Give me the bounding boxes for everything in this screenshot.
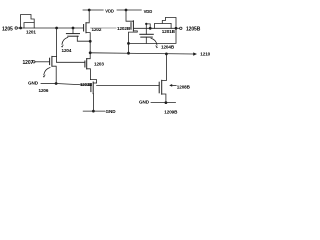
wire output long (90, 53, 193, 54)
capacitor 1204B top plate (140, 33, 154, 35)
capacitor 1204 top plate (66, 33, 79, 35)
transistor 1208B source lead (162, 94, 166, 103)
svg-text:1209B: 1209B (164, 110, 178, 115)
junction dot 1204B top (145, 23, 147, 25)
capacitor 1204B bottom lead (145, 37, 147, 43)
transistor 1201B gate hump (155, 23, 172, 28)
capacitor 1204 junction dot (72, 27, 75, 30)
terminal circle 1205 (15, 27, 17, 29)
junction dot 1204 wire at column (89, 40, 92, 43)
GND label left (28, 81, 39, 86)
transistor 1208B channel bar (161, 80, 163, 94)
transistor 1206 channel bar (51, 56, 53, 66)
label 1201 (26, 29, 36, 34)
svg-text:1205: 1205 (2, 27, 13, 33)
svg-text:GND: GND (139, 99, 150, 104)
svg-text:VDD: VDD (105, 8, 114, 13)
junction dot bottom GND (92, 110, 95, 113)
svg-text:1201B: 1201B (162, 29, 176, 34)
bulk arrow of 1206 (44, 68, 50, 75)
junction dot GND left (55, 82, 58, 85)
svg-text:1204B: 1204B (161, 45, 175, 50)
transistor 1201B gate staircase (162, 18, 176, 29)
transistor 1202 drain lead (86, 10, 89, 23)
junction dot 1201B left (149, 27, 152, 30)
svg-text:1201: 1201 (26, 29, 36, 34)
label 1210 (200, 51, 210, 56)
wire 1204B top tap to 1201B wire (146, 24, 150, 28)
transistor 1203 source lead (87, 69, 97, 83)
label 1203 (94, 61, 104, 66)
junction dot at 1201 (19, 27, 22, 30)
output arrowhead (193, 52, 197, 55)
label 1206 (39, 88, 49, 93)
svg-text:GND: GND (28, 81, 39, 86)
transistor 1202 source lead (86, 33, 90, 53)
transistor 1202B source lead (129, 31, 138, 53)
wire gate 1208B long (97, 85, 160, 87)
bulk arrow of 1204 (62, 37, 68, 44)
transistor 1206 gate bar (49, 58, 51, 64)
transistor 1202B gate bar (130, 23, 132, 30)
VDD label 2 (144, 9, 153, 14)
GND label right (139, 99, 150, 104)
capacitor 1204 bottom plate (68, 35, 78, 37)
node 1205 input label (2, 27, 13, 33)
VDD label 1 (105, 8, 114, 13)
wire GND left (41, 83, 56, 85)
label 1202 (91, 27, 102, 32)
junction dot 1204B wire (127, 42, 130, 45)
label 1204B (161, 45, 175, 50)
wire bottom GND (83, 110, 104, 112)
wire input 1205 to gate of 1202 (17, 27, 83, 29)
transistor 1203B gate bar (90, 84, 92, 92)
wire 1207 to gate of 1206 (35, 61, 50, 63)
capacitor 1204 top lead (72, 28, 74, 34)
wire gate line to 1202B (91, 27, 132, 29)
transistor 1203 channel bar (86, 59, 88, 69)
transistor 1208B gate bar (158, 82, 160, 93)
junction dot node to 1206 drain (55, 27, 58, 30)
junction dot rail at 1202B (125, 9, 128, 12)
svg-text:1210: 1210 (200, 51, 210, 56)
transistor 1202B drain lead (126, 10, 133, 21)
label 1204 (62, 48, 72, 53)
label 1209B (164, 110, 178, 115)
junction dot 1205B (175, 27, 178, 30)
capacitor 1204B top lead (145, 24, 147, 34)
wire node down to 1206 drain and 1203 gate tap (56, 28, 58, 62)
transistor 1202 channel bar (85, 23, 87, 33)
svg-text:1206: 1206 (39, 88, 49, 93)
capacitor 1204 bottom lead (77, 36, 90, 41)
svg-text:1203B: 1203B (80, 82, 92, 87)
transistor 1203B channel bar (92, 82, 94, 94)
transistor Q 1201 gate hump (24, 23, 34, 28)
label 1203B (80, 82, 92, 87)
transistor Q 1201 gate staircase (21, 15, 35, 29)
terminal label 1207 (23, 60, 34, 66)
svg-text:1203: 1203 (94, 61, 104, 66)
transistor 1203B drain corner (93, 82, 96, 84)
junction dot output node left (89, 51, 92, 54)
junction dot GND right (165, 101, 168, 104)
svg-text:VDD: VDD (144, 9, 153, 14)
junction dot output at 1208B (165, 53, 168, 56)
transistor 1206 source stub (52, 66, 56, 83)
wire GND right (151, 102, 176, 104)
wire under 1201B (133, 27, 176, 29)
transistor 1202 gate bar (83, 25, 85, 32)
wire to terminal 1205B (176, 27, 180, 29)
transistor 1203B source lead (92, 94, 94, 112)
svg-text:1205B: 1205B (186, 26, 201, 32)
transistor 1203 drain lead (87, 53, 91, 59)
bulk arrow of 1204B (151, 38, 157, 45)
transistor 1206 drain stub (52, 56, 57, 58)
svg-text:1204: 1204 (62, 48, 72, 53)
transistor 1202B channel bar (132, 21, 134, 31)
svg-text:1208B: 1208B (177, 84, 191, 89)
wire gate 1203B from GND dot (56, 84, 91, 86)
label 1201B (162, 29, 176, 34)
terminal circle 1205B (180, 27, 182, 29)
label arrow 1208B (171, 84, 177, 86)
GND label bottom middle (106, 109, 117, 114)
junction dot rail at 1202 (88, 9, 91, 12)
transistor 1203 gate bar (84, 61, 86, 67)
terminal circle 1207 (33, 61, 35, 63)
wire 1204B bottom to 1205B node (129, 28, 177, 43)
label 1205B (186, 26, 201, 32)
svg-text:1202B: 1202B (117, 26, 131, 31)
VDD rail (83, 9, 103, 11)
svg-text:1207: 1207 (23, 60, 34, 66)
capacitor 1204B bottom plate (141, 36, 153, 38)
label 1202B (116, 26, 130, 31)
wire 1203 gate (57, 61, 85, 63)
svg-text:GND: GND (106, 109, 117, 114)
junction dot 1202B source at output wire (127, 52, 130, 55)
transistor 1208B drain lead (162, 54, 167, 81)
